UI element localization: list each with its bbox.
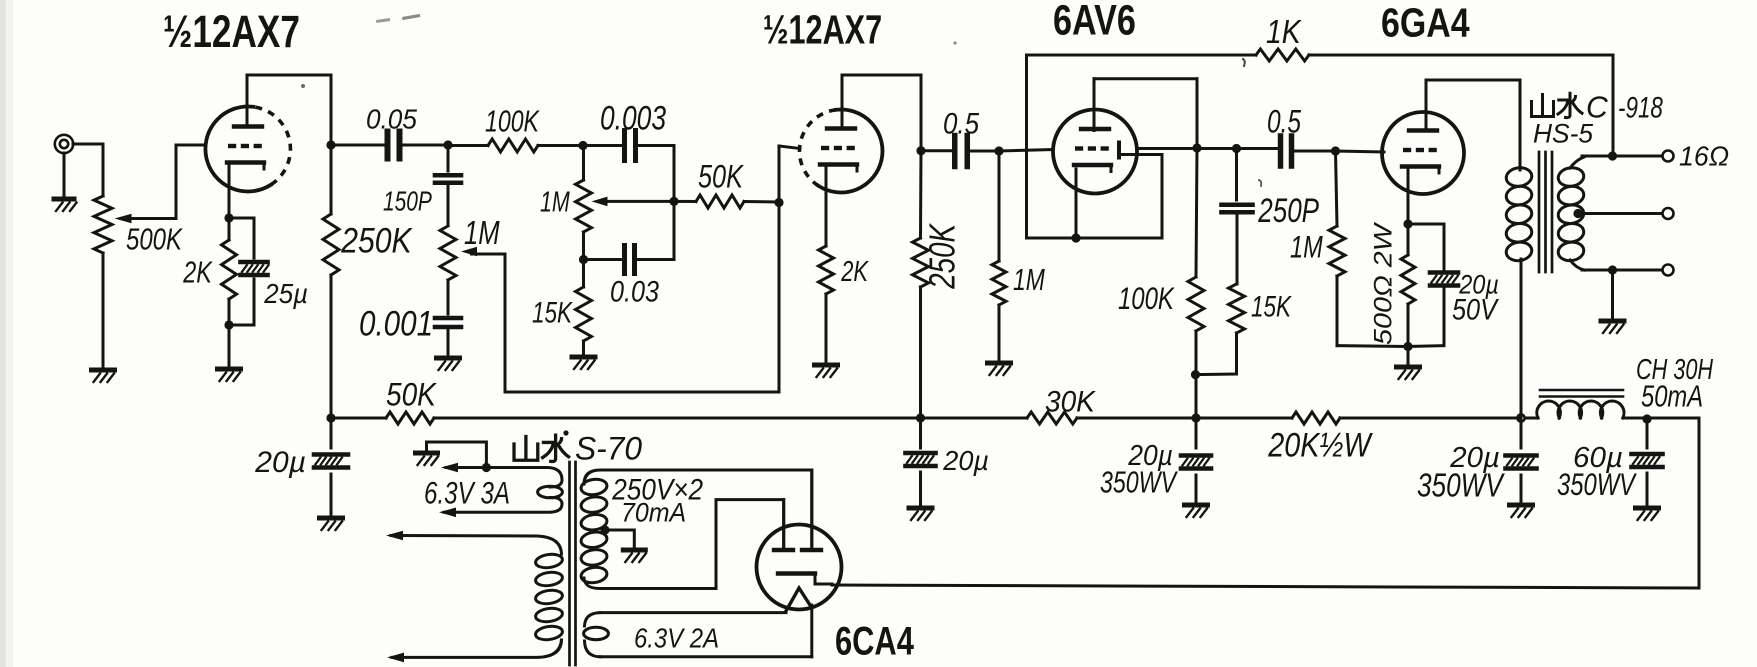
svg-text:15K: 15K: [1251, 289, 1292, 323]
svg-text:50K: 50K: [698, 160, 744, 196]
svg-text:0.5: 0.5: [943, 107, 980, 140]
svg-text:0.003: 0.003: [600, 101, 666, 138]
svg-text:100K: 100K: [485, 104, 541, 138]
svg-text:350WV: 350WV: [1417, 468, 1505, 505]
svg-text:S-70: S-70: [575, 430, 642, 466]
svg-text:500K: 500K: [126, 222, 183, 257]
svg-text:-918: -918: [1618, 91, 1663, 125]
svg-text:50V: 50V: [1452, 293, 1499, 326]
svg-text:2K: 2K: [840, 256, 869, 288]
svg-text:1M: 1M: [1013, 263, 1045, 297]
svg-text:50mA: 50mA: [1641, 379, 1703, 414]
svg-text:1M: 1M: [1290, 229, 1323, 264]
svg-text:0.03: 0.03: [610, 275, 660, 308]
svg-text:350WV: 350WV: [1557, 467, 1637, 502]
svg-text:6CA4: 6CA4: [835, 620, 914, 663]
svg-text:150P: 150P: [383, 187, 432, 217]
svg-text:6.3V 2A: 6.3V 2A: [634, 622, 719, 654]
svg-text:25µ: 25µ: [263, 278, 308, 309]
svg-text:1M: 1M: [540, 187, 570, 219]
svg-text:70mA: 70mA: [621, 499, 686, 528]
svg-text:1M: 1M: [464, 215, 500, 252]
svg-text:6AV6: 6AV6: [1053, 0, 1136, 45]
svg-text:HS-5: HS-5: [1533, 118, 1593, 148]
svg-text:½12AX7: ½12AX7: [763, 7, 882, 52]
svg-text:250K: 250K: [340, 220, 413, 260]
svg-text:20µ: 20µ: [254, 446, 306, 479]
svg-text:6.3V 3A: 6.3V 3A: [424, 474, 510, 510]
svg-text:6GA4: 6GA4: [1381, 0, 1470, 45]
svg-text:30K: 30K: [1045, 386, 1097, 419]
svg-text:0.05: 0.05: [366, 103, 418, 135]
svg-text:1K: 1K: [1266, 13, 1302, 51]
svg-text:2K: 2K: [182, 255, 213, 290]
svg-text:250K: 250K: [922, 223, 963, 290]
svg-text:20µ: 20µ: [942, 445, 989, 476]
svg-text:0.5: 0.5: [1267, 104, 1301, 140]
svg-text:250P: 250P: [1257, 192, 1319, 230]
svg-text:100K: 100K: [1118, 281, 1175, 316]
svg-text:350WV: 350WV: [1100, 464, 1179, 499]
svg-text:20K½W: 20K½W: [1267, 427, 1373, 465]
svg-text:50K: 50K: [386, 378, 438, 413]
svg-text:16Ω: 16Ω: [1679, 140, 1729, 172]
svg-text:0.001: 0.001: [359, 304, 433, 343]
svg-text:15K: 15K: [532, 295, 573, 329]
svg-text:500Ω 2W: 500Ω 2W: [1368, 222, 1397, 345]
svg-text:½12AX7: ½12AX7: [163, 6, 300, 58]
